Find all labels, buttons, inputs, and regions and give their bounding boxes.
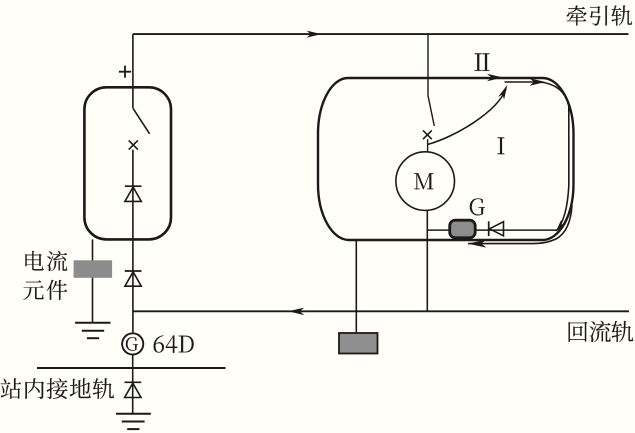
wire: pantograph drop: [427, 34, 429, 96]
x contact mark (loco): [423, 130, 432, 139]
switch blade (loco): [428, 96, 434, 126]
wire: bond drop from loco body: [355, 241, 357, 334]
diode D1 (in substation): [125, 186, 142, 201]
label 站内接地轨 (station ground rail): [1, 378, 21, 399]
diode D2 (below substation): [125, 271, 142, 286]
return current line under body with left arrow: [468, 205, 572, 244]
station grounding rail line: [37, 367, 226, 369]
G device gray box: [450, 220, 476, 238]
arrow on body roof pointing right: [487, 74, 503, 81]
wire: traction rail horizontal line: [133, 33, 629, 35]
current element gray body: [74, 260, 113, 278]
ground symbol (bottom): [116, 414, 151, 429]
diode D4 (left pointing): [489, 221, 504, 236]
arrowhead II at bottom pointing down-left: [556, 220, 567, 232]
switch blade (substation breaker): [133, 108, 150, 134]
label I: [497, 137, 504, 154]
wire: substation vertical to return rail: [132, 150, 134, 334]
label 元件 (element): [23, 280, 44, 300]
diode D3 (ground connection): [125, 382, 142, 397]
arrowhead II on inner roof line: [530, 78, 546, 86]
motor M circle: [396, 152, 455, 211]
label 回流轨 (return rail): [569, 322, 588, 342]
wire: current-element branch vertical: [92, 239, 94, 322]
label G: [470, 198, 485, 215]
wire: return rail horizontal line: [133, 310, 629, 312]
wire: relay to ground rail: [132, 355, 134, 414]
letter M in motor: [414, 173, 433, 189]
arrow on return rail pointing left: [288, 308, 304, 316]
wire: x to motor: [427, 139, 429, 152]
plus polarity mark: [119, 66, 131, 78]
substation enclosure box: [84, 87, 171, 239]
arrow on traction rail pointing right: [307, 31, 322, 38]
wire: axle current path horizontal: [427, 229, 557, 231]
wire: motor to return rail: [426, 211, 428, 312]
letter G inside relay circle: [126, 337, 138, 351]
stray current curve I with up arrow: [428, 89, 506, 145]
label 牵引轨 (traction rail): [567, 5, 587, 25]
ground symbol (current element): [75, 323, 110, 338]
label II: [475, 53, 482, 71]
current path II: roof inner line, around corner, down right side: [505, 82, 569, 231]
label 64D: [154, 335, 164, 352]
relay coil G (64D) circle: [122, 333, 143, 354]
impedance bond gray box: [339, 333, 378, 354]
locomotive body outline: [318, 78, 574, 240]
label 电流 (current): [25, 251, 43, 271]
wire: feeder drop to substation: [132, 34, 134, 108]
x contact mark: [129, 140, 138, 149]
